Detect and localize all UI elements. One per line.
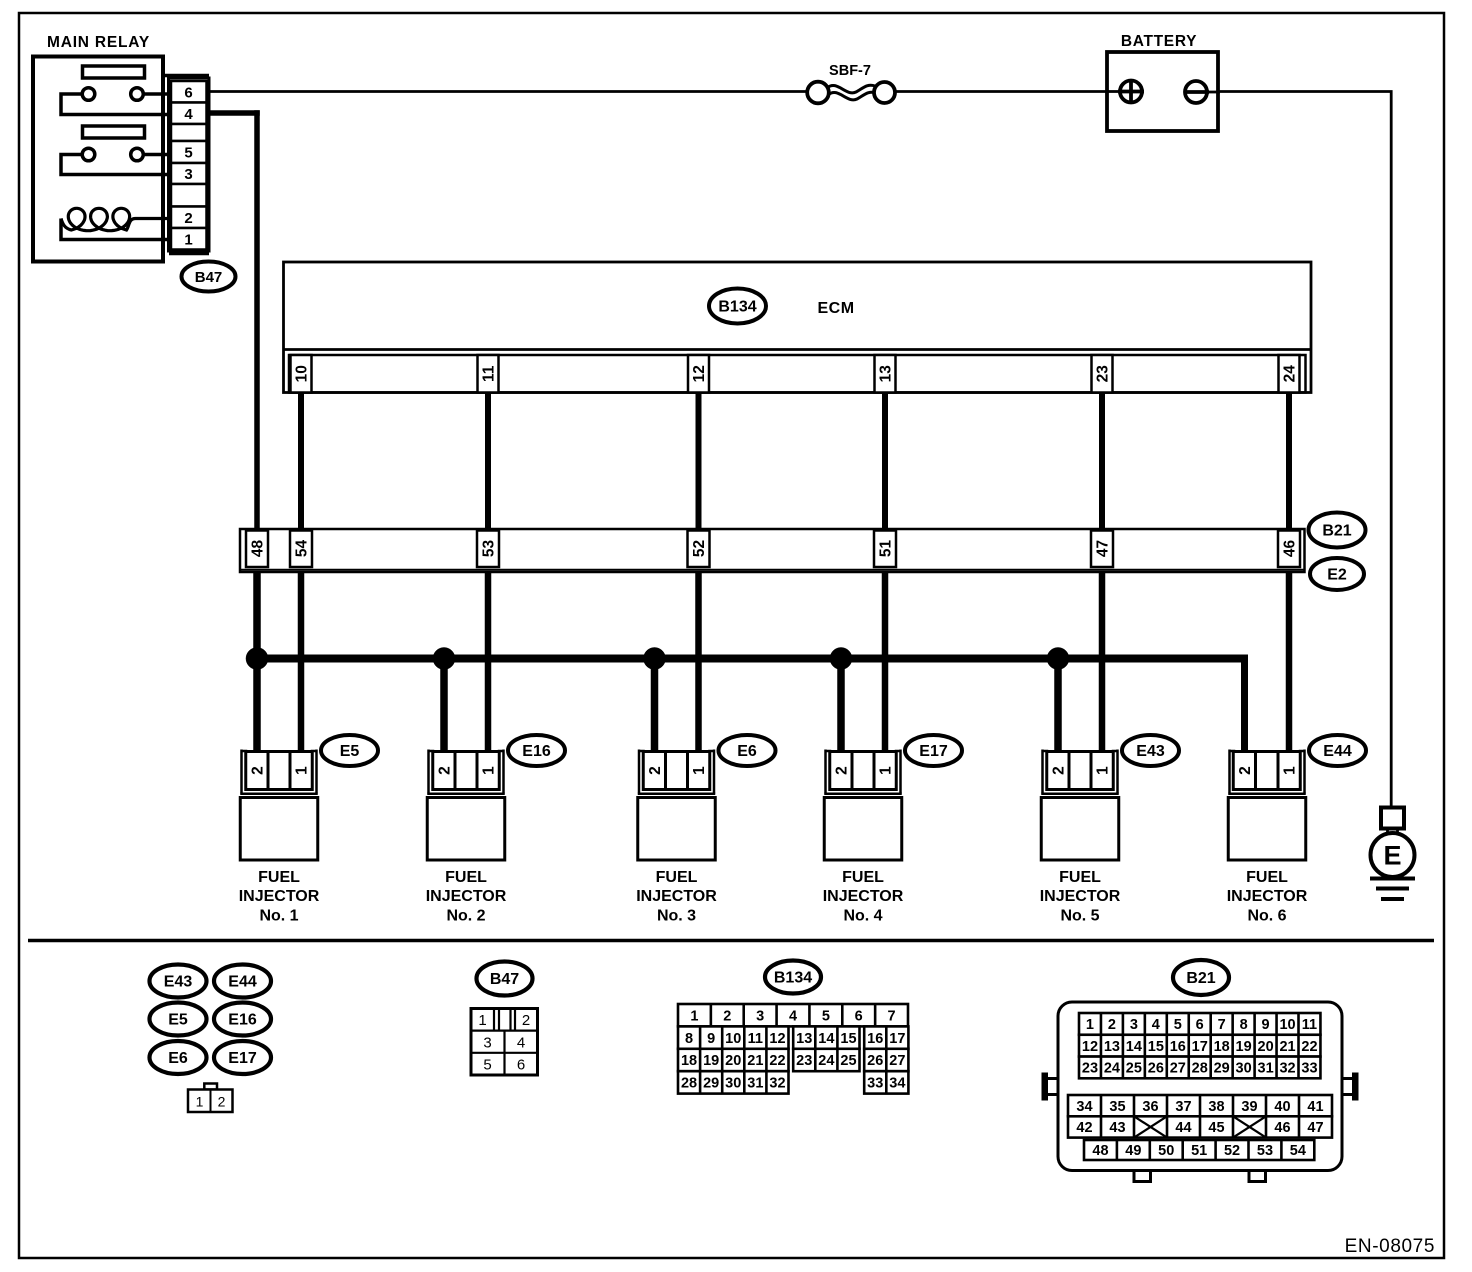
svg-text:33: 33 — [867, 1076, 883, 1092]
connector B21/E2 pin cell 48 — [246, 531, 268, 568]
wire: bus corner down to injector 6 pin 2 — [1241, 655, 1248, 752]
svg-text:5: 5 — [822, 1008, 830, 1024]
wire: ECM pin 23 to injector (vertical) — [1099, 390, 1105, 752]
svg-text:11: 11 — [748, 1031, 763, 1047]
svg-text:3: 3 — [756, 1008, 764, 1024]
svg-text:51: 51 — [878, 540, 895, 558]
svg-text:44: 44 — [1175, 1120, 1191, 1136]
relay contact 2 wire right — [142, 153, 172, 157]
svg-text:E: E — [1383, 841, 1401, 871]
ECM connector pin cell 10 — [291, 355, 312, 393]
bus junction dot 3 — [644, 648, 666, 670]
ECM connector pin cell 12 — [688, 355, 709, 393]
connector label B134 oval (on ECM) — [709, 289, 766, 324]
svg-text:B21: B21 — [1186, 970, 1215, 987]
svg-text:2: 2 — [184, 210, 192, 227]
svg-text:48: 48 — [250, 540, 267, 558]
svg-text:E17: E17 — [228, 1050, 257, 1067]
svg-text:7: 7 — [1218, 1017, 1226, 1033]
svg-text:24: 24 — [1104, 1061, 1120, 1077]
svg-text:14: 14 — [1126, 1039, 1142, 1055]
wire: battery minus to ground, top run — [1207, 92, 1391, 808]
ECM bottom separation line — [284, 348, 1312, 351]
svg-text:1: 1 — [1086, 1017, 1094, 1033]
svg-text:32: 32 — [1279, 1061, 1295, 1077]
svg-text:38: 38 — [1208, 1099, 1224, 1115]
svg-text:28: 28 — [681, 1076, 697, 1092]
legend connector label E16 oval — [214, 1003, 271, 1036]
relay coil — [61, 208, 172, 230]
svg-text:E6: E6 — [168, 1050, 188, 1067]
connector B21/E2 pin cell 54 — [290, 531, 312, 568]
connector B21/E2 strip inner bottom line — [240, 569, 1305, 571]
svg-text:24: 24 — [1282, 365, 1299, 383]
svg-text:INJECTOR: INJECTOR — [636, 888, 717, 905]
legend connector label E5 oval — [150, 1003, 207, 1036]
svg-text:13: 13 — [878, 365, 895, 383]
svg-text:33: 33 — [1301, 1061, 1317, 1077]
svg-text:E17: E17 — [919, 743, 948, 760]
relay contact 2 right circle — [131, 148, 144, 161]
ECM outer box — [284, 262, 1312, 393]
svg-text:INJECTOR: INJECTOR — [1040, 888, 1121, 905]
svg-text:13: 13 — [796, 1031, 812, 1047]
svg-text:31: 31 — [1258, 1061, 1274, 1077]
fuel injector No.6 pin row box — [1233, 752, 1300, 790]
ECM connector pin cell 24 — [1279, 355, 1300, 393]
connector B47 top bracket line — [163, 74, 209, 78]
ECM connector strip — [289, 355, 1306, 393]
battery box — [1107, 52, 1218, 131]
connector label E6 oval (injector No.3) — [719, 735, 776, 766]
battery plus terminal — [1120, 81, 1142, 103]
svg-text:36: 36 — [1142, 1099, 1158, 1115]
legend connector label E43 oval — [150, 965, 207, 998]
svg-text:10: 10 — [294, 365, 311, 382]
connector B47 pin cell blank — [171, 124, 207, 141]
svg-text:13: 13 — [1104, 1039, 1120, 1055]
relay contact 1 left circle — [82, 88, 95, 101]
svg-text:24: 24 — [818, 1053, 834, 1069]
connector B21/E2 pin cell 52 — [688, 531, 710, 568]
fuel injector No.2 pin row box — [433, 752, 500, 790]
svg-text:4: 4 — [184, 106, 193, 123]
svg-text:39: 39 — [1241, 1099, 1257, 1115]
connector B21/E2 pin cell 46 — [1278, 531, 1300, 568]
svg-text:BATTERY: BATTERY — [1121, 33, 1197, 50]
legend connector B134 pinout grid — [678, 1004, 908, 1026]
svg-text:5: 5 — [184, 145, 192, 162]
connector B47 pin cell 2 — [171, 207, 207, 229]
svg-text:50: 50 — [1158, 1143, 1174, 1159]
wire: connector to injector pin 1 below strip (10) — [298, 571, 305, 752]
svg-text:6: 6 — [1196, 1017, 1204, 1033]
wire: connector to injector pin 1 below strip (24) — [1286, 571, 1293, 752]
svg-text:10: 10 — [1279, 1017, 1295, 1033]
svg-text:6: 6 — [184, 84, 192, 101]
ground terminal square — [1381, 808, 1404, 829]
svg-text:22: 22 — [769, 1053, 785, 1069]
legend connector B47 pinout grid — [471, 1009, 538, 1076]
fuel injector No.5 connector shell — [1041, 750, 1044, 794]
svg-text:42: 42 — [1076, 1120, 1092, 1136]
legend connector label E44 oval — [214, 965, 271, 998]
legend connector label B21 oval — [1173, 960, 1229, 995]
svg-text:FUEL: FUEL — [445, 869, 487, 886]
svg-text:SBF-7: SBF-7 — [829, 63, 871, 79]
ECM connector pin cell 11 — [478, 355, 499, 393]
svg-text:5: 5 — [1174, 1017, 1182, 1033]
svg-text:E16: E16 — [228, 1012, 257, 1029]
svg-text:16: 16 — [1170, 1039, 1186, 1055]
legend connector label B134 oval — [765, 961, 821, 994]
svg-text:EN-08075: EN-08075 — [1345, 1236, 1435, 1257]
wire: SBF-7 fuse to battery plus — [894, 90, 1121, 93]
fuel injector No.3 pin row box — [643, 752, 710, 790]
connector B47 pin cell 4 — [171, 103, 207, 125]
fuel injector No.1 connector shell — [240, 750, 243, 794]
svg-text:18: 18 — [681, 1053, 697, 1069]
svg-text:9: 9 — [707, 1031, 715, 1047]
relay contact 1 wire — [61, 94, 172, 115]
connector label B21 oval (right of strip) — [1309, 513, 1366, 548]
svg-text:1: 1 — [878, 766, 895, 775]
svg-text:23: 23 — [1082, 1061, 1098, 1077]
svg-text:4: 4 — [517, 1035, 525, 1052]
legend connector label E17 oval — [214, 1041, 271, 1074]
connector B47 pin column outer box — [169, 78, 210, 251]
connector B21/E2 pin cell 47 — [1091, 531, 1113, 568]
svg-text:1: 1 — [478, 1012, 486, 1029]
fuel injector No.4 pin row box — [830, 752, 897, 790]
connector B47 bottom bracket line — [169, 252, 209, 256]
svg-text:B21: B21 — [1322, 523, 1351, 540]
fuel injector No.6 body — [1228, 798, 1306, 861]
svg-text:7: 7 — [888, 1008, 896, 1024]
svg-text:No. 1: No. 1 — [259, 908, 298, 925]
svg-text:No. 4: No. 4 — [843, 908, 882, 925]
svg-text:11: 11 — [1302, 1017, 1317, 1033]
svg-text:2: 2 — [437, 766, 454, 775]
svg-text:43: 43 — [1109, 1120, 1125, 1136]
svg-text:2: 2 — [723, 1008, 731, 1024]
svg-text:45: 45 — [1208, 1120, 1224, 1136]
wire: relay pin 4 feed, horizontal — [206, 110, 260, 116]
svg-text:23: 23 — [1095, 365, 1112, 383]
svg-text:12: 12 — [691, 365, 708, 382]
divider line — [28, 939, 1434, 943]
ground symbol lines — [1370, 877, 1415, 881]
svg-text:B47: B47 — [195, 269, 223, 286]
svg-text:E43: E43 — [164, 974, 193, 991]
B21 housing bottom tabs — [1134, 1171, 1151, 1182]
svg-text:INJECTOR: INJECTOR — [1227, 888, 1308, 905]
wire: connector to injector pin 1 below strip (12) — [695, 571, 702, 752]
svg-text:35: 35 — [1109, 1099, 1125, 1115]
connector B47 pin cell 3 — [171, 163, 207, 184]
svg-text:5: 5 — [483, 1057, 491, 1074]
wire: bus stub down to injector 4 pin 2 — [837, 659, 845, 753]
wire: connector to injector pin 1 below strip (11) — [485, 571, 492, 752]
svg-text:FUEL: FUEL — [842, 869, 884, 886]
connector label E2 oval (right of strip) — [1310, 558, 1364, 590]
svg-text:23: 23 — [796, 1053, 812, 1069]
relay contact bar 1 — [83, 66, 145, 78]
svg-text:11: 11 — [481, 365, 498, 382]
svg-text:1: 1 — [184, 231, 192, 248]
svg-text:1: 1 — [196, 1094, 204, 1110]
ground circle E — [1371, 833, 1415, 877]
svg-text:46: 46 — [1282, 540, 1299, 558]
fuel injector No.1 body — [240, 798, 318, 861]
svg-text:2: 2 — [522, 1012, 530, 1029]
svg-text:34: 34 — [1076, 1099, 1092, 1115]
ground neck — [1386, 828, 1389, 835]
wire: relay pin 4 feed, vertical through connector pin 48 to injector 1 pin 2 — [254, 110, 260, 752]
svg-text:6: 6 — [855, 1008, 863, 1024]
svg-text:15: 15 — [1148, 1039, 1164, 1055]
svg-text:4: 4 — [1152, 1017, 1160, 1033]
svg-text:29: 29 — [1214, 1061, 1230, 1077]
svg-text:12: 12 — [769, 1031, 785, 1047]
svg-text:37: 37 — [1175, 1099, 1191, 1115]
wire: ECM pin 13 to injector (vertical) — [882, 390, 888, 752]
svg-text:E43: E43 — [1136, 743, 1165, 760]
legend connector B21 pinout grid bottom — [1084, 1140, 1314, 1160]
svg-text:47: 47 — [1307, 1120, 1323, 1136]
relay contact 1 right circle — [131, 88, 144, 101]
svg-text:2: 2 — [834, 766, 851, 775]
svg-text:1: 1 — [481, 766, 498, 775]
svg-text:ECM: ECM — [817, 300, 854, 317]
svg-text:20: 20 — [1258, 1039, 1274, 1055]
fuel injector No.4 connector shell — [824, 750, 827, 794]
svg-text:14: 14 — [818, 1031, 834, 1047]
svg-text:54: 54 — [294, 540, 311, 558]
wire stub inside battery from minus — [1206, 91, 1220, 94]
svg-text:10: 10 — [725, 1031, 741, 1047]
fuse SBF-7 wavy link — [827, 85, 875, 93]
wire: bus stub down to injector 3 pin 2 — [651, 659, 659, 753]
svg-text:INJECTOR: INJECTOR — [426, 888, 507, 905]
wire: ECM pin 24 to injector (vertical) — [1286, 390, 1292, 752]
svg-text:25: 25 — [1126, 1061, 1142, 1077]
svg-text:3: 3 — [184, 166, 192, 183]
svg-text:2: 2 — [250, 766, 267, 775]
fuel injector No.3 body — [638, 798, 716, 861]
wire: bus stub down to injector 2 pin 2 — [440, 659, 448, 753]
connector B21/E2 pin cell 53 — [477, 531, 499, 568]
fuel injector No.2 connector shell — [427, 750, 430, 794]
svg-text:21: 21 — [1279, 1039, 1295, 1055]
svg-text:47: 47 — [1095, 540, 1112, 557]
svg-text:FUEL: FUEL — [656, 869, 698, 886]
svg-text:16: 16 — [867, 1031, 883, 1047]
svg-text:2: 2 — [1237, 766, 1254, 775]
fuel injector No.1 pin row box — [246, 752, 313, 790]
svg-text:19: 19 — [1236, 1039, 1252, 1055]
svg-text:1: 1 — [294, 766, 311, 775]
wire: ECM pin 11 to injector (vertical) — [485, 390, 491, 752]
svg-text:E44: E44 — [1323, 743, 1352, 760]
B21 pinout X cell — [1134, 1116, 1167, 1137]
svg-text:46: 46 — [1274, 1120, 1290, 1136]
connector label E5 oval (injector No.1) — [321, 735, 378, 766]
svg-text:FUEL: FUEL — [258, 869, 300, 886]
ground bus wire (horizontal) — [257, 655, 1248, 663]
svg-text:34: 34 — [889, 1076, 905, 1092]
svg-text:28: 28 — [1192, 1061, 1208, 1077]
svg-text:8: 8 — [1240, 1017, 1248, 1033]
svg-text:3: 3 — [1130, 1017, 1138, 1033]
svg-text:51: 51 — [1191, 1143, 1207, 1159]
svg-text:25: 25 — [840, 1053, 856, 1069]
svg-text:B134: B134 — [774, 970, 812, 987]
svg-text:1: 1 — [691, 766, 708, 775]
legend injector connector pinout (2-pin) tab — [204, 1084, 217, 1090]
svg-text:3: 3 — [483, 1035, 491, 1052]
wire: bus stub down to injector 5 pin 2 — [1054, 659, 1062, 753]
bus junction dot 2 — [433, 648, 455, 670]
fuel injector No.6 connector shell — [1228, 750, 1231, 794]
svg-text:20: 20 — [725, 1053, 741, 1069]
legend connector label E6 oval — [150, 1041, 207, 1074]
wire: pin 48 to bus below strip — [253, 571, 261, 752]
connector label E43 oval (injector No.5) — [1122, 735, 1179, 766]
fuse SBF-7 right terminal circle — [874, 82, 895, 103]
ECM connector pin cell 23 — [1092, 355, 1113, 393]
svg-text:15: 15 — [840, 1031, 856, 1047]
svg-text:1: 1 — [1282, 766, 1299, 775]
svg-text:54: 54 — [1290, 1143, 1306, 1159]
svg-text:No. 6: No. 6 — [1247, 908, 1286, 925]
svg-text:No. 3: No. 3 — [657, 908, 696, 925]
connector label E17 oval (injector No.4) — [905, 735, 962, 766]
B21 pinout X cell — [1233, 1116, 1266, 1137]
main relay box — [33, 57, 163, 262]
connector B47 pin cell 5 — [171, 141, 207, 163]
svg-text:6: 6 — [517, 1057, 525, 1074]
svg-text:8: 8 — [685, 1031, 693, 1047]
svg-text:31: 31 — [747, 1076, 763, 1092]
legend injector connector pinout (2-pin) box — [188, 1090, 233, 1113]
svg-text:9: 9 — [1262, 1017, 1270, 1033]
svg-text:30: 30 — [725, 1076, 741, 1092]
svg-text:E2: E2 — [1327, 567, 1347, 584]
battery minus terminal — [1185, 81, 1207, 103]
svg-text:E5: E5 — [168, 1012, 188, 1029]
svg-text:18: 18 — [1214, 1039, 1230, 1055]
svg-text:No. 5: No. 5 — [1060, 908, 1099, 925]
connector label B47 oval — [182, 262, 236, 292]
wire: ECM pin 12 to injector (vertical) — [696, 390, 702, 752]
fuse SBF-7 left terminal circle — [807, 82, 829, 104]
svg-text:48: 48 — [1092, 1143, 1108, 1159]
svg-text:INJECTOR: INJECTOR — [239, 888, 320, 905]
B21 housing left tab — [1042, 1073, 1049, 1101]
wire: connector to injector pin 1 below strip (23) — [1099, 571, 1106, 752]
connector B47 pin cell 6 — [171, 81, 207, 103]
legend connector label B47 oval — [477, 962, 533, 996]
svg-text:26: 26 — [1148, 1061, 1164, 1077]
bus junction dot 4 — [830, 648, 852, 670]
svg-text:E5: E5 — [340, 743, 360, 760]
connector B47 pin cell blank — [171, 184, 207, 207]
wire: ECM pin 10 to injector (vertical) — [298, 390, 304, 752]
svg-text:MAIN RELAY: MAIN RELAY — [47, 34, 150, 51]
relay contact 1 wire right — [142, 92, 172, 96]
svg-text:52: 52 — [691, 540, 708, 557]
fuel injector No.4 body — [824, 798, 902, 861]
svg-text:1: 1 — [690, 1008, 698, 1024]
svg-text:29: 29 — [703, 1076, 719, 1092]
ECM connector pin cell 13 — [875, 355, 896, 393]
relay contact 2 left circle — [82, 148, 95, 161]
svg-text:2: 2 — [647, 766, 664, 775]
fuel injector No.2 body — [427, 798, 505, 861]
svg-text:FUEL: FUEL — [1059, 869, 1101, 886]
svg-text:22: 22 — [1301, 1039, 1317, 1055]
relay contact bar 2 — [83, 126, 145, 138]
svg-text:27: 27 — [1170, 1061, 1186, 1077]
svg-text:41: 41 — [1307, 1099, 1323, 1115]
fuel injector No.5 pin row box — [1047, 752, 1114, 790]
relay contact 2 wire — [61, 155, 172, 175]
fuel injector No.3 connector shell — [638, 750, 641, 794]
svg-text:E6: E6 — [737, 743, 757, 760]
fuel injector No.5 body — [1041, 798, 1119, 861]
svg-text:17: 17 — [1192, 1039, 1208, 1055]
svg-text:30: 30 — [1236, 1061, 1252, 1077]
svg-text:2: 2 — [1051, 766, 1068, 775]
svg-text:17: 17 — [889, 1031, 905, 1047]
svg-text:FUEL: FUEL — [1246, 869, 1288, 886]
svg-text:12: 12 — [1082, 1039, 1098, 1055]
bus junction dot 5 — [1047, 648, 1069, 670]
svg-text:21: 21 — [747, 1053, 763, 1069]
svg-text:No. 2: No. 2 — [446, 908, 485, 925]
connector label E16 oval (injector No.2) — [508, 735, 565, 766]
svg-text:49: 49 — [1125, 1143, 1141, 1159]
legend connector B21 pinout grid middle — [1068, 1095, 1332, 1116]
wire: connector to injector pin 1 below strip (13) — [882, 571, 889, 752]
svg-text:40: 40 — [1274, 1099, 1290, 1115]
B21 housing right tab — [1352, 1073, 1359, 1101]
svg-text:32: 32 — [769, 1076, 785, 1092]
svg-text:52: 52 — [1224, 1143, 1240, 1159]
svg-text:26: 26 — [867, 1053, 883, 1069]
legend connector B21 pinout grid top — [1079, 1013, 1320, 1035]
connector B47 pin cell 1 — [171, 228, 207, 250]
svg-text:2: 2 — [1108, 1017, 1116, 1033]
connector B21/E2 pin cell 51 — [874, 531, 896, 568]
wire stub inside battery to plus — [1107, 90, 1122, 93]
svg-text:53: 53 — [1257, 1143, 1273, 1159]
legend connector B21 housing — [1058, 1002, 1342, 1171]
bus junction dot 1 — [246, 648, 268, 670]
svg-text:E16: E16 — [522, 743, 551, 760]
svg-text:B47: B47 — [490, 971, 519, 988]
svg-text:53: 53 — [481, 540, 498, 558]
wire: relay pin 6 to SBF-7 fuse — [209, 90, 808, 93]
relay coil return wire to pin 1 — [61, 219, 172, 240]
svg-text:E44: E44 — [228, 974, 257, 991]
connector B21/E2 strip outer box — [240, 529, 1305, 572]
svg-text:19: 19 — [703, 1053, 719, 1069]
connector label E44 oval (injector No.6) — [1309, 735, 1366, 766]
svg-text:1: 1 — [1095, 766, 1112, 775]
svg-text:B134: B134 — [718, 299, 756, 316]
